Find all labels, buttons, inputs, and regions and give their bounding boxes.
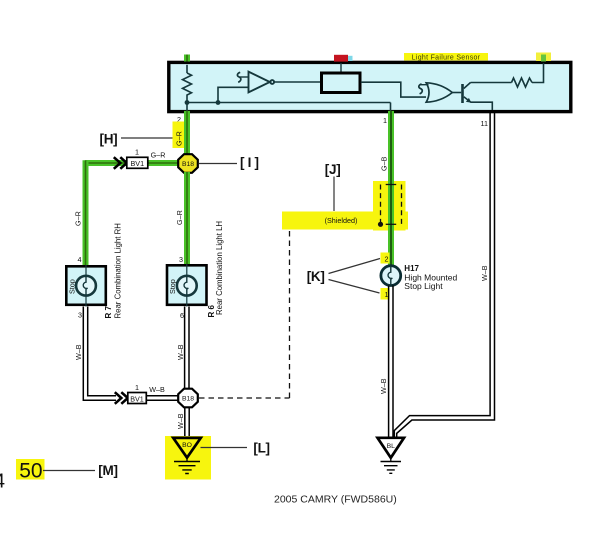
name High Mounted Stop Light <box>404 273 457 291</box>
wire W-B from R7 down and right to BV1 <box>83 307 116 401</box>
resistor (vertical, inside sensor) <box>183 65 192 103</box>
connector BV1 (upper) <box>127 157 148 168</box>
svg-text:50: 50 <box>19 460 42 483</box>
bulb R7 <box>76 276 96 296</box>
G-R highlighted label (wire color) <box>173 122 185 149</box>
svg-text:G–R: G–R <box>175 210 184 225</box>
Stop label (R6) <box>168 279 177 294</box>
svg-text:BL: BL <box>387 443 396 450</box>
wire: node up to inverter input <box>218 87 249 102</box>
wire G-R vertical pin2 to B18 <box>184 111 190 155</box>
Light Failure Sensor label highlight <box>404 53 488 62</box>
svg-text:2: 2 <box>385 255 389 264</box>
node (junction dot mid) <box>216 100 221 105</box>
page number 50 highlight <box>16 459 45 483</box>
G-R wire label (BV1 to B18) <box>151 151 166 160</box>
shield highlight vertical <box>373 181 406 231</box>
resistor (horizontal, right) <box>512 78 533 87</box>
dashed net: B18 to shield <box>199 224 378 398</box>
wire stub top right green-yellow <box>536 53 551 62</box>
wire: emitter to pin 11 <box>471 102 493 110</box>
pin 6 label (R6 bottom) <box>180 311 184 320</box>
connector chevrons BV1 (upper) <box>114 157 127 169</box>
shield highlight horizontal <box>282 212 408 230</box>
wire: rect output to OR gate lower input <box>361 82 426 97</box>
connector B18 (upper, yellow octagon) <box>178 154 198 173</box>
wire: rect top pin to box edge <box>340 63 342 72</box>
shield (dashed) <box>381 185 402 225</box>
svg-text:3: 3 <box>179 255 183 264</box>
svg-text:[H]: [H] <box>100 132 118 147</box>
svg-text:[M]: [M] <box>98 463 117 478</box>
svg-text:[ I ]: [ I ] <box>240 155 259 170</box>
label [L] <box>253 441 269 456</box>
pin 2 highlight (H17) <box>381 253 390 264</box>
ground BL <box>378 438 405 474</box>
op-amp/inverter U1a <box>239 72 274 93</box>
W-B label (right wire) <box>480 265 489 281</box>
svg-text:Light Failure Sensor: Light Failure Sensor <box>412 55 481 62</box>
(Shielded) text <box>325 216 358 225</box>
svg-text:BO: BO <box>182 442 192 449</box>
pin 3 label (R7 bottom) <box>78 311 82 320</box>
svg-text:3: 3 <box>78 311 82 320</box>
svg-text:BV1: BV1 <box>130 394 144 403</box>
svg-text:[K]: [K] <box>307 269 325 284</box>
lamp R6 box <box>167 265 207 305</box>
svg-text:R 7: R 7 <box>104 306 113 319</box>
svg-text:G–R: G–R <box>151 151 166 160</box>
label [K] <box>307 269 325 284</box>
pin 1 label (BV1 upper) <box>135 148 139 157</box>
wire: bottom bus inside sensor <box>187 103 391 112</box>
lamp R6 internal wire <box>186 264 188 307</box>
leader line L <box>201 447 248 449</box>
label [ I ] <box>240 155 259 170</box>
svg-text:11: 11 <box>481 119 488 128</box>
svg-text:[L]: [L] <box>253 441 269 456</box>
svg-text:B18: B18 <box>182 396 194 403</box>
pin 1 label (BV1 lower) <box>135 383 139 392</box>
ground BO <box>173 438 201 474</box>
component rect (relay block) <box>322 73 361 93</box>
svg-text:2005 CAMRY (FWD586U): 2005 CAMRY (FWD586U) <box>274 494 397 506</box>
wire G-R horizontal branch to left <box>86 160 127 166</box>
W-B label (above BL) <box>379 378 388 394</box>
label [M] <box>98 463 117 478</box>
wire W-B BV1 to B18 <box>146 396 178 400</box>
ground BO highlight <box>165 436 211 480</box>
designator H17 <box>404 264 419 273</box>
caption 2005 CAMRY (FWD586U) <box>274 494 397 506</box>
pin 2 label (sensor bottom left) <box>177 115 181 124</box>
node: shield junction dot <box>378 222 383 227</box>
lamp R7 internal wire <box>85 265 87 307</box>
transistor Q1 <box>452 83 471 104</box>
svg-text:(Shielded): (Shielded) <box>325 216 358 225</box>
label [H] <box>100 132 118 147</box>
wire W-B B18 down to ground BO <box>185 408 189 438</box>
wire W-B from R6 down to B18 lower <box>185 307 189 390</box>
svg-text:W–B: W–B <box>74 344 83 360</box>
svg-text:Stop: Stop <box>68 279 77 294</box>
bulb R6 <box>177 276 197 296</box>
wire G-R B18 down to R6 <box>184 172 190 264</box>
label [J] <box>325 162 341 177</box>
leader lines K <box>329 259 381 294</box>
wire G-R vertical left down to R7 <box>83 160 89 265</box>
designator R7 <box>104 306 113 319</box>
Light Failure Sensor box U1 <box>169 62 571 111</box>
svg-text:Rear Combination Light LH: Rear Combination Light LH <box>215 221 224 315</box>
svg-text:G–R: G–R <box>74 211 83 226</box>
svg-text:W–B: W–B <box>176 344 185 360</box>
wire G-B sensor pin1 down to H17 <box>388 111 394 265</box>
pin 11 label <box>481 119 488 128</box>
svg-text:Rear Combination Light RH: Rear Combination Light RH <box>114 223 123 318</box>
G-B label <box>380 156 389 171</box>
name Rear Combination Light LH <box>215 221 224 315</box>
svg-text:4: 4 <box>78 255 82 264</box>
svg-text:1: 1 <box>135 148 139 157</box>
lamp R7 box <box>66 266 106 305</box>
W-B label (above BO) <box>176 413 185 429</box>
wire: inverter output to component rect <box>274 81 320 83</box>
svg-text:1: 1 <box>383 116 387 125</box>
G-R label (mid wire) <box>175 210 184 225</box>
G-R label (left wire) <box>74 211 83 226</box>
connector chevrons BV1 (lower) <box>115 392 128 404</box>
svg-text:6: 6 <box>180 311 184 320</box>
svg-text:W–B: W–B <box>176 413 185 429</box>
svg-text:W–B: W–B <box>480 265 489 281</box>
svg-text:Stop Light: Stop Light <box>404 281 443 291</box>
leader line J <box>333 177 335 212</box>
leader line I <box>199 163 238 165</box>
W-B label (left wire) <box>74 344 83 360</box>
svg-text:B18: B18 <box>182 161 194 168</box>
wire: resistor to top pin <box>532 63 544 83</box>
wire W-B pin11 down and left to ground BL <box>394 111 494 438</box>
leader line H <box>121 137 173 139</box>
leader line M <box>43 470 95 472</box>
page number 4 (clipped at left) <box>0 471 5 493</box>
wire: collector to resistor <box>471 82 512 84</box>
wire W-B H17 down to ground BL <box>389 286 393 439</box>
connector BV1 (lower) <box>128 393 147 404</box>
pin 4 label (R7 top) <box>78 255 82 264</box>
svg-text:Stop: Stop <box>168 279 177 294</box>
Stop label (R7) <box>68 279 77 294</box>
designator R6 <box>207 305 216 318</box>
name Rear Combination Light RH <box>114 223 123 318</box>
bulb H17 <box>381 266 401 286</box>
svg-text:4: 4 <box>0 471 5 493</box>
pin 1 label (sensor bottom mid) <box>383 116 387 125</box>
W-B wire label (BV1 to B18) <box>149 385 165 394</box>
connector B18 (lower, white octagon) <box>178 389 198 408</box>
svg-text:W–B: W–B <box>379 378 388 394</box>
pin 1 highlight (H17) <box>381 288 390 300</box>
OR gate U1b <box>421 83 453 102</box>
svg-text:W–B: W–B <box>149 385 165 394</box>
svg-text:G–B: G–B <box>380 156 389 171</box>
W-B label (mid wire) <box>176 344 185 360</box>
svg-text:1: 1 <box>135 383 139 392</box>
wire stub top green (pin above resistor) <box>184 55 190 62</box>
hysteresis curl (OR gate input) <box>419 84 422 94</box>
pin 3 label (R6 top) <box>179 255 183 264</box>
svg-text:G–R: G–R <box>175 131 184 146</box>
node (junction dot left) <box>185 100 190 105</box>
svg-text:BV1: BV1 <box>131 159 145 168</box>
svg-text:[J]: [J] <box>325 162 341 177</box>
hysteresis curl (inverter input) <box>237 72 240 82</box>
wire stub top red (above component rect) <box>334 55 353 62</box>
